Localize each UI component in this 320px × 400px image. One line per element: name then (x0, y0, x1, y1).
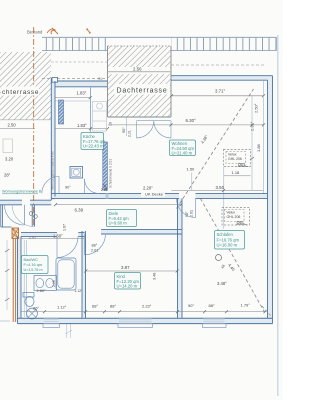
svg-text:3.50: 3.50 (216, 185, 225, 190)
entrance text teal underlined (2, 190, 42, 194)
svg-text:Wohnungstrennwand F90: Wohnungstrennwand F90 (51, 151, 55, 190)
railing right end post (275, 37, 277, 50)
svg-text:chterrasse: chterrasse (2, 89, 39, 96)
stairwell west wall stub (1, 205, 12, 227)
svg-text:Schrankwand h 2.01: Schrankwand h 2.01 (109, 159, 113, 188)
room label box Kind (115, 273, 141, 290)
room label box Wohnen (170, 140, 196, 156)
wall Diele/Kind (101, 230, 182, 234)
dim 1.18 under velux 1 (224, 167, 251, 230)
svg-text:6.30°: 6.30° (186, 118, 197, 123)
svg-text:3.87: 3.87 (121, 265, 130, 270)
terrace double door leaves (137, 121, 172, 138)
kind door arc (85, 234, 106, 255)
middle terrace hatch block (108, 46, 172, 117)
extension lines below wall (65, 324, 72, 338)
wall Bad/Kind (82, 231, 86, 318)
svg-text:U=21.40 m: U=21.40 m (172, 150, 193, 155)
dimension 1.83 upper (56, 91, 92, 100)
svg-text:U=16.00 m: U=16.00 m (217, 243, 238, 248)
svg-text:2,01: 2,01 (128, 130, 132, 137)
svg-text:3.20: 3.20 (5, 157, 14, 162)
railing balusters right section (171, 38, 276, 51)
orange existing wall double line (13, 239, 15, 323)
kitchen door 90 (42, 176, 71, 193)
svg-text:2.01: 2.01 (190, 210, 194, 217)
svg-text:2.50: 2.50 (8, 123, 17, 128)
orange revision dash-dot line (33, 27, 35, 227)
svg-text:90°: 90° (188, 303, 194, 308)
dim 90 rotated beside terrace door (122, 117, 132, 137)
room label box Kueche (81, 133, 106, 150)
svg-text:1.83°: 1.83° (77, 123, 87, 128)
corner pier square (52, 77, 57, 82)
kitchen counter faint outline (93, 102, 107, 132)
orange tick mark right (86, 28, 91, 34)
svg-text:1.83°: 1.83° (77, 91, 87, 96)
label chterrasse (Dachterrasse cut) (1, 87, 39, 97)
dim 6.30 across living room (108, 118, 265, 126)
middle wall segments (51, 194, 267, 199)
wire (27, 27, 91, 227)
dim 6.39 in Diele (54, 203, 183, 212)
svg-text:DEL: DEL (238, 162, 247, 167)
svg-text:1.67: 1.67 (63, 224, 67, 231)
right outer wall (268, 76, 273, 324)
floor drain circle (27, 308, 38, 319)
svg-text:2.01: 2.01 (91, 248, 98, 252)
svg-text:1.12°: 1.12° (75, 289, 84, 293)
dim 1.50 bad top (22, 234, 85, 239)
orange scribble mark (47, 28, 58, 34)
electrical symbols (29, 212, 33, 216)
velux roof window 2 (Schlafen) (222, 208, 250, 226)
left outer wall upper (51, 78, 55, 200)
dimension 2.56 inside terrace block (108, 66, 170, 74)
svg-text:28°: 28° (4, 173, 11, 178)
svg-text:68°: 68° (92, 304, 98, 309)
dim 1.83 lower (56, 123, 110, 130)
svg-text:Wohnungstrennwebe B: Wohnungstrennwebe B (2, 190, 42, 194)
door to Schlafen (177, 199, 196, 218)
railing bottom line left (42, 50, 108, 52)
window bottom 1 (43, 319, 60, 328)
svg-text:UK Decke: UK Decke (145, 192, 164, 197)
label Dachterrasse (114, 84, 170, 95)
top wall left (kitchen) (51, 81, 108, 101)
svg-text:1.12°: 1.12° (57, 304, 67, 309)
svg-text:88°: 88° (110, 304, 116, 309)
wc (23, 293, 34, 307)
svg-text:10: 10 (104, 187, 108, 191)
svg-text:Dachterrasse: Dachterrasse (117, 88, 168, 95)
bathtub (56, 258, 76, 290)
velux roof window 1 (Wohnen) (224, 150, 251, 167)
svg-text:EL: EL (99, 77, 103, 81)
room label box Bad/WC (22, 256, 49, 274)
blue hatched pier (59, 100, 64, 124)
bottom outer wall (18, 318, 273, 323)
dim 3.87 Kind (84, 265, 178, 273)
kitchen tall unit hatched bar (103, 142, 108, 190)
svg-text:DEL: DEL (237, 220, 246, 225)
dashed line above kitchen wall (51, 61, 108, 63)
svg-text:88°: 88° (92, 244, 98, 248)
bad door arc (57, 237, 78, 258)
window bottom 3 (203, 319, 227, 328)
entrance door leaf and arcs (5, 205, 35, 227)
svg-text:Bestand: Bestand (27, 30, 43, 35)
svg-text:3.48°: 3.48° (217, 281, 227, 286)
dimension 3.71 top right (170, 88, 265, 97)
svg-text:U=14.20 m: U=14.20 m (117, 284, 138, 289)
chimney orange hatched (12, 228, 19, 239)
svg-text:2.60°: 2.60° (37, 288, 47, 293)
bad top wall (21, 233, 85, 237)
room label box Diele (107, 210, 137, 227)
lamp circle symbol (216, 255, 222, 261)
svg-text:3.71°: 3.71° (215, 88, 226, 93)
washbasin (34, 276, 57, 291)
top wall dashed eave line left (42, 77, 108, 79)
room label box Schlafen (215, 231, 245, 250)
svg-text:GHL 206: GHL 206 (227, 215, 241, 219)
svg-text:2.50°: 2.50° (254, 103, 259, 113)
left dim ticks (5, 240, 10, 310)
svg-text:U=13.75 m: U=13.75 m (24, 267, 43, 272)
annotation UK Decke 2.20 (141, 184, 165, 197)
right vertical dim chain (250, 96, 254, 190)
wall masonry fill tint (0, 76, 273, 324)
railing top line (42, 36, 276, 38)
door 76 to Wohnen (85, 179, 108, 194)
dim 3.50 above middle wall (172, 185, 264, 192)
corner diagonal tick bottom right (262, 306, 271, 316)
top wall dashed eave line right (171, 64, 265, 66)
knee wall line vertical (90, 88, 92, 134)
svg-text:3.48: 3.48 (153, 273, 157, 280)
svg-text:Velux: Velux (227, 211, 236, 215)
svg-text:10: 10 (109, 122, 113, 126)
svg-text:1.50: 1.50 (187, 167, 196, 172)
svg-text:6.39: 6.39 (75, 208, 84, 213)
svg-text:2.56: 2.56 (133, 66, 142, 71)
svg-text:1.88: 1.88 (256, 143, 261, 152)
railing balusters left section (44, 38, 108, 51)
entrance top wall (0, 200, 51, 205)
svg-text:Schlafen: Schlafen (217, 232, 234, 237)
scan fold faint line right edge (277, 35, 279, 396)
svg-text:26°: 26° (33, 306, 39, 311)
svg-text:2,09: 2,09 (52, 280, 56, 287)
dim 2.50 left (0, 123, 35, 129)
stove/sink unit (70, 167, 83, 179)
svg-text:GHL 206: GHL 206 (228, 157, 242, 161)
left outer wall lower (18, 237, 27, 324)
left terrace hatch (0, 52, 51, 120)
top wall right (171, 76, 273, 81)
svg-text:U=22.43 m: U=22.43 m (83, 144, 104, 149)
bottom wall left end mark (0, 320, 10, 322)
right wall inner face line (262, 81, 264, 194)
svg-text:1.79°: 1.79° (241, 303, 251, 308)
svg-text:90°: 90° (65, 186, 71, 190)
svg-text:U=9.60 m: U=9.60 m (109, 221, 128, 226)
svg-text:2.20°: 2.20° (143, 186, 153, 191)
bottom dimension row (22, 303, 267, 314)
roofline diagonal dashed (Wohnen) (177, 89, 254, 209)
svg-text:88°: 88° (209, 303, 215, 308)
roofline diagonal dashed (Schlafen) (201, 199, 265, 313)
entrance side wall (32, 205, 34, 227)
railing bottom line right (171, 50, 276, 52)
wall pier mark (106, 194, 109, 199)
svg-text:1.18: 1.18 (232, 170, 241, 175)
svg-text:2.23°: 2.23° (142, 304, 152, 309)
faint sketch box left (3, 139, 13, 153)
svg-text:Velux: Velux (228, 153, 237, 157)
wall Kind/Schlafen (178, 199, 183, 319)
window bottom 2 (118, 319, 153, 328)
svg-text:90°: 90° (122, 127, 126, 133)
